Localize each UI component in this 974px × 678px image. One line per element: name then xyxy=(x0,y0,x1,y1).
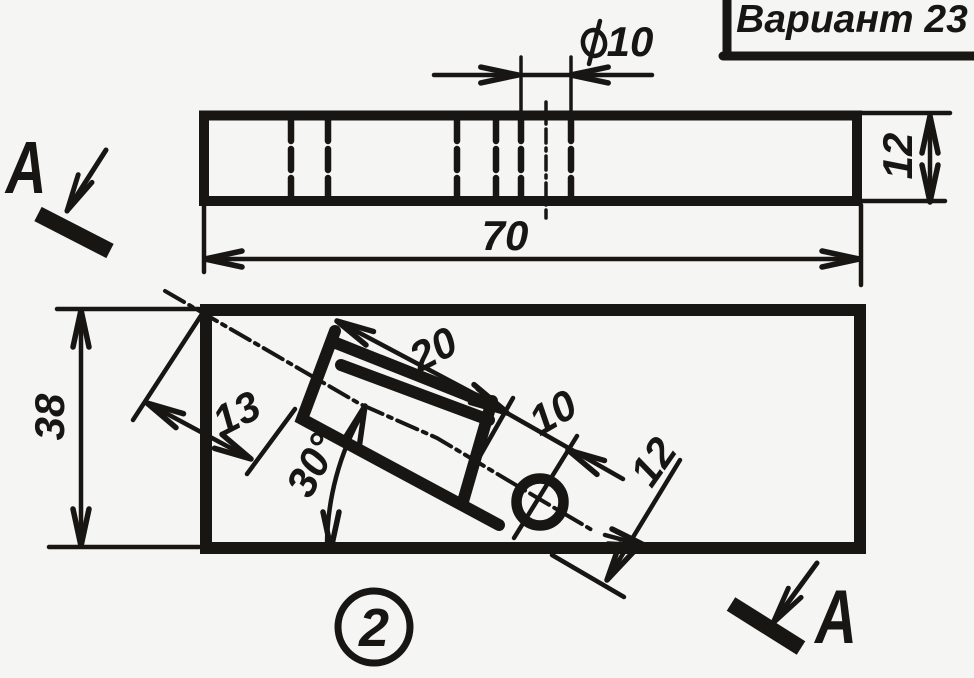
slot width 13 extension line upper xyxy=(133,311,204,420)
slot length 20 dimension line xyxy=(337,321,503,409)
dia10 extension line right xyxy=(569,57,573,119)
side view plate outline xyxy=(204,116,857,202)
svg-text:12: 12 xyxy=(620,429,685,494)
offset 12 dimension line xyxy=(607,460,680,580)
svg-text:Вариант 23: Вариант 23 xyxy=(736,0,968,41)
thickness 12 dimension line xyxy=(922,116,938,202)
slot end extension line xyxy=(468,398,513,477)
length 70 extension lines xyxy=(204,205,861,285)
hole offset 10 dimension line xyxy=(470,389,623,479)
offset 12 extension line xyxy=(552,555,624,597)
thickness 12 extension lines xyxy=(860,113,950,201)
length 70 label xyxy=(482,212,529,259)
view number text xyxy=(358,598,389,658)
slot length 20 label xyxy=(401,317,465,381)
thickness 12 label xyxy=(874,133,921,180)
svg-text:A: A xyxy=(813,575,856,659)
dia symbol xyxy=(581,21,608,64)
hidden line slot right 1 xyxy=(454,120,461,196)
hidden line slot right 2 xyxy=(493,120,500,196)
dia10 dimension line xyxy=(434,67,652,83)
length 70 dimension line xyxy=(205,251,859,267)
svg-text:12: 12 xyxy=(874,133,921,180)
variant title text xyxy=(736,0,968,41)
slot centerline end arrow xyxy=(605,529,646,546)
svg-text:A: A xyxy=(4,127,46,209)
svg-text:10: 10 xyxy=(607,18,654,65)
dia10 label xyxy=(607,18,654,65)
slot width 13 label xyxy=(205,382,268,445)
hole outline xyxy=(517,479,564,526)
section label A bottom right xyxy=(813,575,856,659)
section arrow A bottom right xyxy=(731,563,817,648)
svg-text:38: 38 xyxy=(26,393,73,440)
hidden line hole left xyxy=(518,120,525,196)
hidden line slot left 1 xyxy=(288,120,295,196)
hole offset 10 label xyxy=(521,380,585,444)
width 38 extension lines xyxy=(49,309,199,547)
section label A top left xyxy=(4,127,46,209)
hole cross centerline xyxy=(514,436,577,538)
svg-text:2: 2 xyxy=(358,598,389,658)
angle 30 arc xyxy=(323,406,365,549)
offset 12 label xyxy=(620,429,685,494)
variant title box xyxy=(723,0,974,56)
hidden line slot left 2 xyxy=(325,120,332,196)
slot width 13 extension line lower xyxy=(247,409,295,474)
slot step inner edge xyxy=(336,343,492,405)
slot width 13 dimension line xyxy=(147,403,251,459)
hole centerline side view xyxy=(544,102,548,218)
svg-text:13: 13 xyxy=(205,382,268,445)
slot step inner edge 2 xyxy=(341,365,489,420)
top view plate outline xyxy=(206,310,860,548)
width 38 label xyxy=(26,393,73,440)
dia10 extension line left xyxy=(519,57,523,119)
hidden line hole right xyxy=(568,120,575,196)
view number badge xyxy=(338,591,410,663)
angle 30 label xyxy=(277,425,349,504)
svg-text:70: 70 xyxy=(482,212,529,259)
slot outline xyxy=(302,331,499,525)
section arrow A top left xyxy=(38,150,110,251)
slot centerline xyxy=(165,291,592,530)
width 38 dimension line xyxy=(73,310,89,546)
